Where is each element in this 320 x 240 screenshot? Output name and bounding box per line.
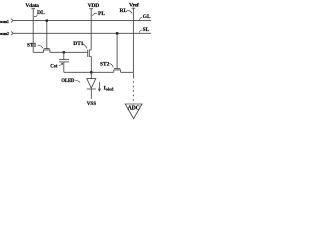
svg-text:Vdata: Vdata xyxy=(25,3,39,9)
OLED xyxy=(61,72,96,107)
svg-text:OLED: OLED xyxy=(61,79,75,84)
capacitor Cst xyxy=(50,51,69,72)
svg-text:Vref: Vref xyxy=(129,3,139,9)
transistor ST2 xyxy=(100,32,121,72)
svg-text:ADC: ADC xyxy=(128,106,140,112)
power line PL xyxy=(89,9,93,50)
svg-text:ST1: ST1 xyxy=(27,42,37,48)
data line DL xyxy=(31,9,35,53)
svg-text:GL: GL xyxy=(143,14,151,20)
transistor DT1 xyxy=(73,41,91,73)
wire node A (gate wire from DL to DT1 gate) xyxy=(33,51,87,53)
svg-text:ST2: ST2 xyxy=(100,61,110,67)
svg-text:SL: SL xyxy=(143,27,150,33)
svg-text:RL: RL xyxy=(120,8,128,14)
svg-text:scan1: scan1 xyxy=(0,19,10,24)
transistor ST1 xyxy=(27,19,50,52)
svg-text:DL: DL xyxy=(37,10,45,16)
ADC block xyxy=(125,104,142,119)
I_oled current arrow xyxy=(98,82,114,91)
scan line 2 chevron xyxy=(11,31,13,35)
wire anode row xyxy=(64,71,134,73)
svg-text:Cst: Cst xyxy=(50,64,58,69)
scan line 1 (GL) xyxy=(13,20,151,22)
svg-text:scan2: scan2 xyxy=(0,31,10,36)
svg-text:VDD: VDD xyxy=(88,3,100,9)
scan line 2 (SL) xyxy=(13,32,151,34)
svg-text:VSS: VSS xyxy=(87,101,97,107)
svg-text:PL: PL xyxy=(98,11,105,17)
scan line 1 chevron xyxy=(11,19,13,23)
svg-text:oled: oled xyxy=(106,86,114,91)
readout line RL xyxy=(132,8,136,72)
junction DT1 source xyxy=(90,71,92,73)
dashed line to ADC xyxy=(132,72,134,78)
